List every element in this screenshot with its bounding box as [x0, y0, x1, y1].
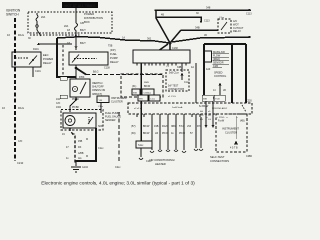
svg-text:5xF TEST: 5xF TEST: [168, 86, 179, 88]
svg-text:M: M: [86, 138, 88, 141]
svg-text:LG: LG: [208, 119, 211, 121]
svg-text:(4B): (4B): [240, 120, 245, 123]
svg-text:C2B0: C2B0: [246, 155, 253, 158]
svg-text:EEC: EEC: [43, 53, 49, 57]
wire label 19 P/BK: [66, 76, 85, 79]
svg-text:B/LG: B/LG: [93, 71, 99, 74]
svg-text:A/BB: A/BB: [78, 152, 84, 155]
figure caption: [41, 181, 195, 187]
svg-text:1A: 1A: [122, 37, 125, 40]
svg-text:4A: 4A: [191, 66, 194, 69]
starburst junction node: [156, 10, 181, 50]
svg-text:4 5 T B: 4 5 T B: [230, 147, 238, 150]
svg-text:SWITCH: SWITCH: [6, 13, 19, 17]
sender label: [105, 112, 121, 122]
svg-text:FUEL: FUEL: [110, 52, 117, 56]
svg-text:R/LG: R/LG: [18, 106, 24, 110]
connector end: [139, 158, 143, 160]
inertia fuel shutoff switch: [70, 79, 90, 97]
svg-text:HEATER: HEATER: [155, 162, 166, 166]
fuel pump relay label: [108, 45, 119, 65]
svg-text:RELAY: RELAY: [43, 61, 52, 65]
svg-text:-x: -x: [236, 117, 238, 119]
svg-text:BK/W: BK/W: [143, 125, 150, 128]
svg-text:P/O: P/O: [197, 125, 201, 128]
svg-text:(F/P): (F/P): [110, 49, 116, 52]
svg-text:SDD: SDD: [98, 125, 103, 128]
svg-text:FxxW: FxxW: [218, 120, 225, 123]
svg-text:C/O: C/O: [18, 140, 22, 143]
svg-text:(57): (57): [131, 125, 136, 128]
svg-text:T5B: T5B: [108, 45, 113, 48]
top feed line y10: [155, 9, 252, 11]
svg-text:M: M: [86, 155, 88, 158]
svg-text:C/O: C/O: [56, 102, 60, 105]
svg-text:SENDER: SENDER: [105, 119, 116, 122]
svg-text:Electronic engine controls, 4.: Electronic engine controls, 4.0L engine;…: [41, 181, 195, 187]
fuel pump relay output junction: [75, 67, 78, 70]
main bus wire to starburst junction: [57, 37, 170, 44]
speed control label: [214, 72, 227, 79]
svg-text:4A0: 4A0: [206, 68, 211, 71]
svg-text:34B: 34B: [177, 66, 182, 69]
svg-text:BK/W: BK/W: [144, 85, 151, 88]
svg-text:x1 C1-5: x1 C1-5: [168, 96, 176, 98]
fuel pump / fuel gauge sender (dashed unit): [61, 110, 103, 131]
dashed power bus to right: [86, 74, 163, 76]
svg-text:CLUSTER: CLUSTER: [225, 131, 237, 135]
svg-text:P/BK: P/BK: [79, 76, 85, 79]
firewall dashed boundary (lower): [118, 112, 120, 163]
svg-text:CONTROL: CONTROL: [214, 75, 227, 78]
ground G104: [71, 167, 81, 172]
svg-text:x2 x2 x2: x2 x2 x2: [134, 108, 143, 110]
svg-text:W1R1NG A55Y: W1R1NG A55Y: [212, 107, 228, 110]
connector boxes bottom of left PCM column: [202, 95, 213, 101]
svg-text:PK/: PK/: [200, 115, 204, 117]
svg-text:C1B(C): C1B(C): [144, 93, 152, 95]
svg-text:x53: x53: [187, 125, 192, 128]
svg-text:C138: C138: [172, 47, 178, 50]
svg-text:(31): (31): [132, 85, 136, 88]
svg-text:C/B: C/B: [80, 22, 84, 25]
svg-text:CONNECTORS: CONNECTORS: [210, 159, 229, 163]
svg-text:C113: C113: [204, 20, 210, 23]
instrument cluster label: [218, 120, 245, 123]
wire below EEC relay: [32, 67, 34, 77]
svg-text:PK/BK: PK/BK: [72, 106, 79, 109]
inline connector boxes WB C1xx: [138, 95, 148, 101]
svg-text:OPENS ON: OPENS ON: [92, 89, 105, 92]
ignition switch label: [6, 9, 21, 17]
svg-text:S1xx: S1xx: [138, 144, 144, 147]
splice box S1xx: [136, 141, 152, 148]
svg-text:C2xx: C2xx: [115, 166, 121, 169]
svg-text:RELAY: RELAY: [233, 30, 241, 33]
svg-text:AG: AG: [78, 157, 82, 160]
svg-text:361: 361: [147, 37, 152, 41]
WOT relay label: [233, 20, 244, 33]
svg-text:BOX: BOX: [84, 20, 90, 24]
fuel pump relay: [69, 52, 108, 65]
wire pin to self-test area right: [195, 63, 197, 103]
svg-text:3B3: 3B3: [171, 125, 176, 128]
connector C/O on W1: [18, 140, 22, 143]
labels 1C2 PK/BK rows: [56, 98, 79, 109]
svg-text:POWER: POWER: [43, 57, 53, 61]
MAF sensor label: [213, 51, 225, 68]
pin tick specks below harness row right section: [206, 117, 238, 119]
svg-text:56B: 56B: [133, 93, 137, 95]
svg-text:R101: R101: [33, 48, 39, 51]
svg-text:PUMP: PUMP: [110, 56, 118, 60]
MAF sensor / PCM thick box: [204, 44, 246, 103]
svg-text:BK/Y: BK/Y: [80, 41, 86, 45]
connector boxes beside switch: [60, 77, 67, 81]
pump motor circle: [65, 116, 75, 126]
svg-text:WB: WB: [139, 99, 143, 101]
thick diag to bus: [76, 68, 86, 75]
inertia switch label: [92, 82, 105, 96]
svg-text:FUEL GAUGE: FUEL GAUGE: [105, 116, 121, 119]
svg-text:Y/R: Y/R: [99, 100, 103, 102]
svg-text:BK: BK: [72, 133, 76, 136]
arrow into fuel pump relay: [75, 46, 78, 49]
hot at all times banner: [62, 2, 98, 8]
svg-text:FUEL PUMP/: FUEL PUMP/: [105, 112, 120, 115]
wire W2 battery feed from banner: [75, 8, 77, 23]
svg-text:PK/BK: PK/BK: [72, 98, 79, 101]
svg-text:LR: LR: [155, 132, 158, 135]
wire below inertia switch: [75, 98, 77, 100]
firewall dashed boundary (upper): [62, 45, 64, 76]
svg-text:20A: 20A: [41, 16, 46, 19]
svg-text:T/LB: T/LB: [215, 99, 220, 101]
svg-text:SELF-TEST: SELF-TEST: [210, 155, 225, 159]
harness connector row (dashed): [128, 103, 252, 114]
svg-text:19B: 19B: [154, 125, 159, 128]
fuse link in PDB: [36, 13, 72, 45]
fuse label 30: [28, 16, 46, 40]
svg-text:C113: C113: [246, 13, 252, 16]
svg-text:RELAY: RELAY: [110, 60, 119, 64]
instrument cluster dashed box: [216, 114, 247, 152]
svg-text:G104: G104: [82, 166, 89, 169]
thick wire from pin down through harness: [140, 63, 142, 141]
wire sender to instrument cluster: [100, 103, 102, 113]
svg-text:1xxB 5xxA: 1xxB 5xxA: [172, 106, 183, 109]
svg-text:348: 348: [206, 6, 211, 10]
EEC power relay label: [43, 53, 53, 65]
svg-text:BK/Y: BK/Y: [80, 28, 86, 32]
connector C210: [17, 161, 24, 165]
feed line y37 to right edge: [172, 37, 250, 42]
white label box: [205, 51, 212, 62]
sender rheostat: [88, 117, 93, 124]
svg-text:CONNECTOR5: CONNECTOR5: [168, 89, 185, 91]
svg-text:C138: C138: [104, 67, 110, 70]
svg-text:C210: C210: [17, 161, 24, 165]
svg-text:(30): (30): [131, 132, 136, 135]
svg-text:DG/O: DG/O: [162, 125, 168, 128]
svg-text:DISTRIBUTION: DISTRIBUTION: [84, 16, 103, 20]
svg-text:5B/B: 5B/B: [144, 82, 149, 84]
sender return wire (thick): [76, 128, 96, 161]
svg-text:C220: C220: [246, 100, 252, 103]
svg-text:6x BK/W: 6x BK/W: [199, 105, 209, 108]
svg-text:LB: LB: [223, 90, 226, 92]
svg-text:INSTRUMENT: INSTRUMENT: [222, 127, 239, 131]
wire W1 ignition feed (dashed, left): [14, 18, 16, 161]
EEC connector strip box: [133, 50, 190, 63]
svg-text:SPEED: SPEED: [214, 72, 223, 75]
svg-text:CLUSTER: CLUSTER: [111, 101, 123, 104]
svg-text:4B: 4B: [161, 14, 164, 17]
EEC power relay: [12, 52, 41, 67]
label C/B: [64, 22, 84, 28]
wire label 361: [122, 37, 152, 41]
svg-text:DK: DK: [78, 146, 82, 149]
wire label 16 R/LG lower: [2, 106, 24, 110]
pdb inner dashed line: [30, 34, 80, 36]
power distribution box (dashed): [28, 12, 112, 33]
svg-text:C1xx: C1xx: [184, 82, 190, 84]
svg-text:R/LG: R/LG: [18, 33, 24, 37]
branch wires below row: [152, 114, 201, 150]
svg-text:IMPACT): IMPACT): [92, 93, 102, 96]
branch end connectors: [150, 149, 203, 153]
svg-text:1W2: 1W2: [56, 106, 62, 109]
svg-text:45B: 45B: [78, 140, 83, 143]
svg-text:PK/O: PK/O: [162, 132, 168, 135]
svg-text:5T-O: 5T-O: [179, 125, 185, 128]
svg-text:162: 162: [56, 98, 61, 101]
branch labels row2: [131, 132, 193, 135]
connector pins bottom: [137, 63, 186, 66]
junction W2 x main bus: [75, 35, 78, 38]
svg-text:LG: LG: [200, 119, 203, 121]
svg-text:34B: 34B: [195, 26, 200, 30]
self-test connectors label: [210, 155, 229, 163]
svg-text:BK/W: BK/W: [143, 132, 150, 135]
dashed box engine harness: [121, 74, 163, 97]
connector C2B0: [246, 155, 253, 158]
svg-text:INERTIA /: INERTIA /: [92, 82, 103, 85]
label 4A0: [206, 68, 211, 71]
label between self-test box and harness row: [168, 96, 176, 98]
fuel pump ground wire (dashed): [70, 128, 75, 164]
inline connector boxes: [132, 89, 140, 95]
feed line y17 to WAC connector: [156, 17, 201, 22]
thick feed wire down-left: [57, 38, 76, 77]
svg-text:5xB C1xx: 5xB C1xx: [169, 73, 180, 75]
svg-text:20A: 20A: [64, 25, 69, 28]
air conditioning heater label: [149, 158, 175, 166]
instrument cluster (fuel gauge) label: [111, 97, 128, 104]
svg-text:HOT AT ALL TIMES: HOT AT ALL TIMES: [65, 4, 97, 8]
feed line y30 to WOT relay: [181, 29, 218, 31]
check engine indicator arrow: [234, 141, 238, 145]
ground wire labels: [62, 133, 84, 160]
branch labels row1: [131, 125, 201, 128]
wire label 18 BK/Y upper: [67, 28, 86, 32]
wire label 16 R/LG: [7, 33, 24, 37]
svg-text:AIR CONDITIONING/: AIR CONDITIONING/: [149, 158, 175, 162]
svg-text:SHUTOFF: SHUTOFF: [92, 86, 104, 89]
speed control wire w/ arrow: [219, 84, 221, 97]
svg-text:C1B: C1B: [213, 65, 218, 68]
cluster feed wires: [206, 101, 213, 126]
svg-text:POWER: POWER: [84, 12, 94, 16]
A/C WOT cutout relay (dashed box): [218, 19, 231, 33]
svg-text:C1xx: C1xx: [98, 147, 104, 150]
svg-text:C101: C101: [35, 70, 41, 73]
wire label 18 BK/Y lower: [67, 41, 86, 45]
svg-text:58B: 58B: [203, 99, 207, 101]
svg-text:PK/O: PK/O: [179, 132, 185, 135]
circuit breaker symbol on W2: [75, 23, 78, 31]
self-test connector dashed box: [166, 70, 189, 91]
connector label above relay: [33, 48, 39, 51]
row pins: [137, 114, 200, 117]
svg-text:-x: -x: [226, 117, 228, 119]
label BK/W: [199, 105, 209, 108]
